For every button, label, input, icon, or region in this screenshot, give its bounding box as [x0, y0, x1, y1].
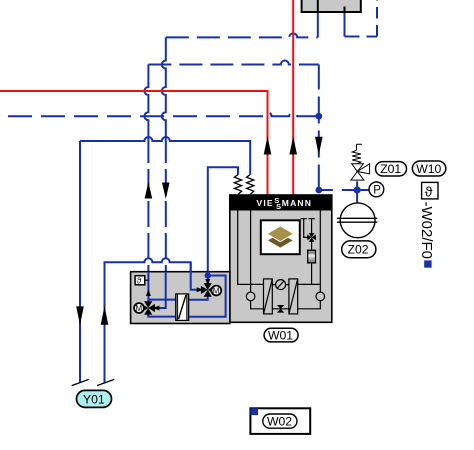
svg-text:W01: W01 — [268, 328, 293, 342]
svg-text:ϑ: ϑ — [137, 277, 142, 286]
svg-text:Y01: Y01 — [83, 392, 105, 406]
svg-text:ϑ: ϑ — [425, 183, 433, 199]
svg-text:M: M — [136, 304, 143, 313]
svg-text:S: S — [276, 202, 281, 211]
svg-text:W02: W02 — [267, 414, 292, 428]
svg-text:M: M — [213, 287, 220, 296]
svg-text:VIE: VIE — [257, 198, 274, 208]
svg-text:W10: W10 — [416, 162, 441, 176]
svg-text:Z02: Z02 — [348, 243, 369, 257]
svg-text:P: P — [373, 185, 381, 197]
svg-text:MANN: MANN — [282, 198, 312, 208]
svg-text:-W02/F0: -W02/F0 — [418, 202, 435, 260]
svg-text:Z01: Z01 — [380, 162, 401, 176]
